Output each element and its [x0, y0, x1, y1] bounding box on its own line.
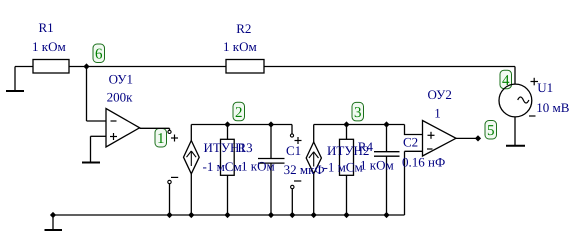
OY1 plus input stub wire: [91, 135, 107, 137]
node 3 box: [352, 102, 364, 121]
junction ITUN1 diamond at rail: [188, 212, 194, 218]
ITUN1 arrow: [187, 151, 197, 166]
wire feedback into op-amp minus input: [87, 120, 107, 122]
wire R1 to R2: [69, 66, 226, 68]
junction ITUN2 diamond at rail: [311, 212, 317, 218]
resistor R4: [340, 139, 354, 175]
wire ITUN2 diamond top to node 3 rail: [313, 125, 315, 143]
junction R4 bottom: [343, 212, 349, 218]
node 5 box: [485, 121, 497, 140]
OY1 minus sign inside: [111, 120, 117, 122]
ground under U1: [506, 145, 525, 147]
ITUN1 plus terminal circle: [168, 130, 171, 133]
junction ITUN2 minus at rail: [289, 212, 295, 218]
wire C2 bottom: [386, 156, 388, 215]
wire ground to R1: [15, 66, 33, 68]
svg-text:1 кОм: 1 кОм: [360, 158, 394, 173]
wire down to U1 top: [514, 67, 516, 85]
wire ITUN1 diamond top to node 2 rail: [190, 125, 192, 141]
wire R4 top: [346, 125, 348, 140]
svg-text:0.16 нФ: 0.16 нФ: [402, 154, 445, 169]
U1 plus sign: [531, 78, 539, 86]
ITUN2 plus sign: [295, 137, 302, 144]
junction R3 top: [224, 121, 230, 127]
wire node 3 rail down to OY2 plus input: [405, 125, 423, 135]
wire ITUN1 minus terminal to bottom rail: [169, 184, 171, 215]
svg-text:1 кОм: 1 кОм: [223, 39, 257, 54]
svg-text:R2: R2: [236, 21, 251, 36]
resistor R1: [33, 60, 69, 74]
ITUN2 plus terminal circle: [290, 134, 293, 137]
svg-text:-1 мСм: -1 мСм: [324, 159, 363, 174]
junction C2 top: [383, 121, 389, 127]
ITUN1 minus sign: [171, 176, 178, 178]
junction C1 bottom: [268, 212, 274, 218]
op-amp OU1 triangle: [106, 109, 140, 148]
junction bottom rail left end: [50, 212, 56, 218]
resistor R2: [226, 60, 264, 74]
OY2 plus sign inside: [428, 132, 435, 139]
svg-text:1 кОм: 1 кОм: [241, 158, 275, 173]
svg-text:1 кОм: 1 кОм: [32, 39, 66, 54]
node 2 box: [233, 102, 245, 121]
svg-text:R3: R3: [238, 140, 253, 155]
OY2 output wire to node 5: [456, 137, 478, 139]
wire stub down to ITUN1 plus terminal: [169, 128, 171, 130]
U1 sine symbol: [518, 97, 529, 103]
wire feedback vertical from node 6: [86, 67, 88, 122]
voltage source U1: [499, 84, 532, 117]
wire R4 bottom: [346, 175, 348, 215]
ITUN2 minus terminal circle: [291, 185, 294, 188]
junction R3 bottom: [224, 212, 230, 218]
wire R3 top: [227, 125, 229, 140]
ITUN1 diamond: [184, 141, 200, 174]
svg-text:С1: С1: [286, 143, 301, 158]
wire ITUN1 diamond bottom to bottom rail: [190, 174, 192, 215]
svg-text:3: 3: [354, 105, 362, 121]
wire OY2 minus to bottom rail: [404, 151, 406, 215]
ITUN2 arrow: [309, 152, 319, 167]
svg-text:6: 6: [95, 47, 103, 63]
svg-text:200к: 200к: [107, 89, 134, 104]
svg-text:4: 4: [502, 73, 510, 89]
resistor R3: [221, 139, 235, 175]
junction node 6: [50, 63, 481, 218]
svg-text:1: 1: [434, 105, 441, 120]
capacitor C1 plates: [258, 159, 285, 164]
bottom rail wire: [53, 214, 405, 216]
svg-text:C2: C2: [403, 134, 418, 149]
svg-text:ОУ2: ОУ2: [428, 87, 452, 102]
U1 minus sign: [529, 115, 536, 117]
wire ITUN2 diamond bottom to bottom rail: [313, 174, 315, 215]
svg-text:ОУ1: ОУ1: [109, 71, 133, 86]
OY1 plus sign inside: [110, 133, 117, 140]
capacitor C2 plates: [374, 152, 400, 157]
junction C1 top: [268, 121, 274, 127]
ITUN2 diamond: [306, 142, 321, 174]
svg-text:R1: R1: [39, 20, 54, 35]
ITUN1 minus terminal circle: [168, 180, 171, 183]
node 3 rail wire: [314, 124, 405, 126]
junction OY2 output node 5: [475, 135, 481, 141]
ITUN2 minus sign: [294, 180, 301, 182]
OY2 minus sign inside: [427, 148, 433, 150]
wire node 2 rail down to ITUN2 plus terminal: [291, 125, 293, 134]
ground at OY1 plus input: [82, 162, 100, 164]
wire C1 bottom: [270, 163, 272, 215]
ITUN1 plus sign: [171, 135, 178, 142]
svg-text:R4: R4: [358, 139, 374, 154]
node 2 rail wire: [191, 124, 292, 126]
junction C2 bottom: [383, 212, 389, 218]
OY1 output wire to node 1: [140, 127, 170, 129]
svg-text:1: 1: [157, 131, 165, 147]
junction R4 top: [343, 121, 349, 127]
svg-text:-1 мСм: -1 мСм: [203, 159, 242, 174]
op-amp OU2 triangle: [423, 121, 457, 157]
wire C1 top: [270, 125, 272, 159]
svg-text:U1: U1: [537, 80, 553, 95]
wire ITUN2 minus terminal to bottom rail: [291, 189, 293, 215]
svg-text:10 мВ: 10 мВ: [536, 100, 569, 115]
wire U1 bottom to ground: [514, 117, 516, 146]
svg-text:32 мкФ: 32 мкФ: [284, 162, 325, 177]
wire plus input down to ground: [90, 136, 92, 162]
ground top-left: [6, 67, 24, 92]
wire R2 to U1 corner: [264, 66, 515, 68]
node 4 box: [500, 70, 512, 89]
svg-text:2: 2: [235, 105, 243, 121]
wire R3 bottom: [227, 175, 229, 215]
ground at bottom rail left end: [45, 215, 63, 230]
wire C2 top: [386, 125, 388, 152]
node 6 box: [93, 44, 105, 63]
node 1 box: [155, 129, 167, 148]
junction ITUN1 minus at rail: [166, 212, 172, 218]
wire OY2 minus input: [405, 150, 423, 152]
svg-text:5: 5: [487, 123, 495, 139]
